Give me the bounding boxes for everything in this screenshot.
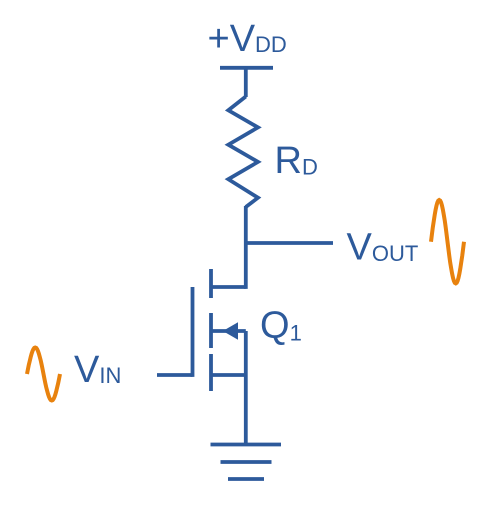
svg-text:VIN: VIN xyxy=(74,349,121,391)
svg-text:Q1: Q1 xyxy=(260,305,302,347)
power rail +VDD xyxy=(220,66,273,70)
wire drain xyxy=(244,243,248,289)
wire resistor to output node xyxy=(244,206,248,243)
wire gate lead VIN xyxy=(157,373,193,377)
svg-text:+VDD: +VDD xyxy=(208,18,287,60)
transistor Q1 channel segment (body) xyxy=(209,313,213,348)
ground bar 3 xyxy=(228,477,264,481)
transistor Q1 body arrow xyxy=(223,322,238,339)
wire source to ground xyxy=(244,331,248,446)
transistor Q1 channel segment (source) xyxy=(209,354,213,391)
AC waveform at output xyxy=(431,200,464,283)
svg-text:RD: RD xyxy=(275,140,318,182)
transistor Q1 channel segment (drain) xyxy=(209,269,213,298)
ground bar 2 xyxy=(221,460,272,464)
wire rail to resistor xyxy=(244,67,248,97)
resistor RD xyxy=(228,97,258,208)
svg-text:VOUT: VOUT xyxy=(347,227,419,269)
ground bar 1 xyxy=(211,443,282,447)
wire output node to VOUT xyxy=(246,241,333,245)
AC waveform at input xyxy=(27,348,60,401)
transistor Q1 gate bar xyxy=(191,287,195,377)
transistor Q1 body lead xyxy=(211,329,246,333)
transistor Q1 drain lead xyxy=(211,285,246,289)
transistor Q1 source lead xyxy=(211,373,246,377)
